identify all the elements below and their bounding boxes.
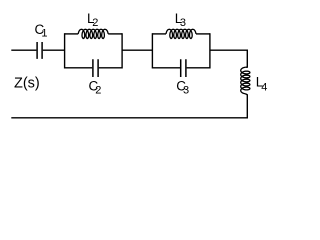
wire C1 to tank1	[43, 49, 65, 51]
svg-text:4: 4	[261, 81, 267, 93]
inductor L2	[78, 29, 108, 38]
wire tank1 top branch left	[65, 33, 79, 35]
wire tank2 to L4 corner	[210, 50, 247, 68]
node tank2 left vertical	[151, 33, 153, 68]
wire input top-left	[11, 49, 36, 51]
wire tank1 top branch right	[108, 33, 122, 35]
svg-text:3: 3	[180, 17, 186, 29]
capacitor C1	[37, 42, 42, 59]
svg-text:2: 2	[95, 85, 101, 97]
wire bottom rail	[11, 117, 247, 119]
svg-text:Z(s): Z(s)	[14, 75, 40, 91]
wire L4 bottom jog	[245, 94, 247, 95]
wire tank1 bottom branch left	[65, 67, 93, 69]
svg-text:1: 1	[41, 27, 47, 39]
capacitor C2	[93, 59, 98, 77]
inductor L3	[166, 29, 196, 38]
node tank1 left vertical	[64, 33, 66, 68]
node tank1 right vertical	[121, 33, 123, 68]
wire tank2 bottom branch right	[187, 67, 210, 69]
wire L4 top jog	[245, 66, 247, 68]
wire tank2 bottom branch left	[152, 67, 180, 69]
capacitor C3	[181, 59, 186, 77]
svg-text:2: 2	[92, 17, 98, 29]
wire tank2 top branch left	[152, 33, 166, 35]
wire tank1 bottom branch right	[99, 67, 122, 69]
wire tank1 to tank2	[122, 49, 152, 51]
wire L4 to bottom rail	[246, 94, 248, 118]
inductor L4	[241, 67, 250, 94]
svg-text:3: 3	[183, 85, 189, 97]
node tank2 right vertical	[209, 33, 211, 68]
wire tank2 top branch right	[196, 33, 210, 35]
